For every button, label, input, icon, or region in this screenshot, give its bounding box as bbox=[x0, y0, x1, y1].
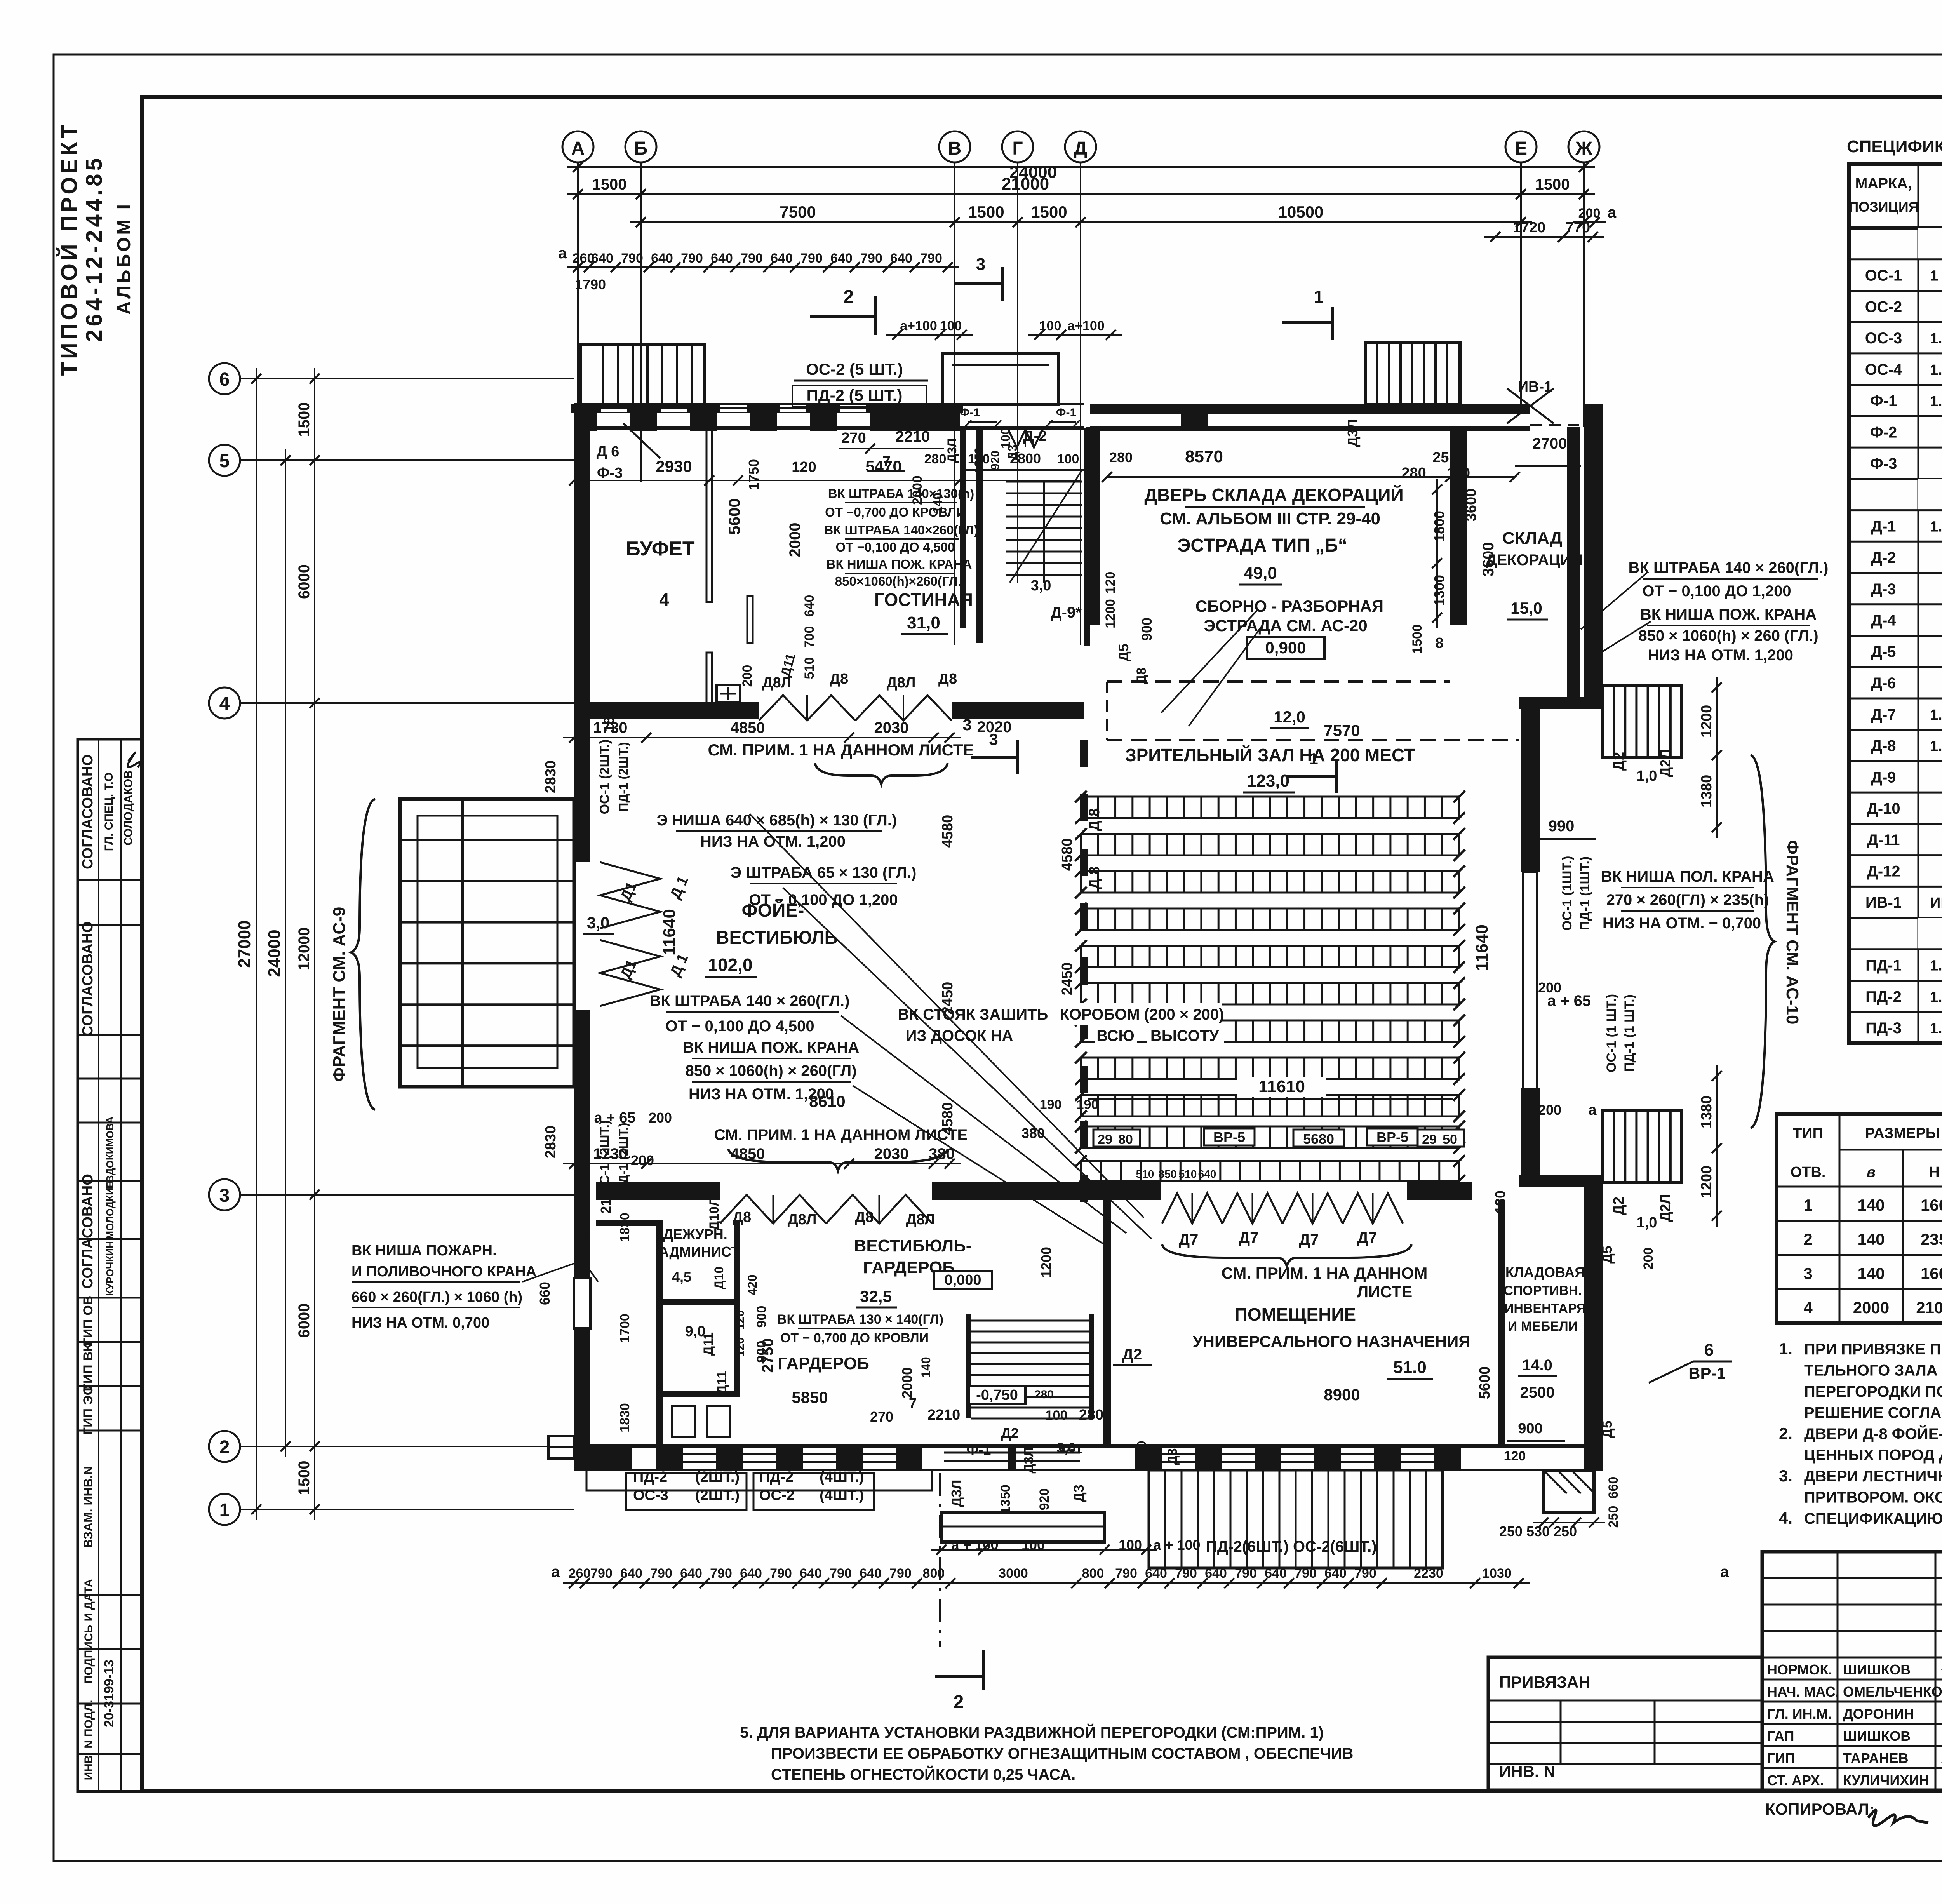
dims 1730 4850 bottom foyer bbox=[563, 1163, 961, 1164]
svg-text:ПОДПИСЬ И ДАТА: ПОДПИСЬ И ДАТА bbox=[82, 1579, 95, 1684]
svg-text:ТЕЛЬНОГО ЗАЛА В ПРОЕМЫ ПО: ТЕЛЬНОГО ЗАЛА В ПРОЕМЫ ПО ОСИ „3" И „4" … bbox=[1804, 1362, 1942, 1379]
svg-text:Д 8: Д 8 bbox=[1086, 808, 1103, 831]
admin rooms walls bbox=[656, 1220, 663, 1446]
title block outline bbox=[1762, 1552, 1942, 1790]
leader right notes bbox=[1581, 573, 1647, 629]
svg-text:20-3199-13: 20-3199-13 bbox=[102, 1660, 117, 1727]
svg-text:Д-11: Д-11 bbox=[1867, 832, 1900, 849]
svg-text:790: 790 bbox=[741, 251, 763, 266]
doors D8 axis4 bbox=[759, 695, 855, 721]
svg-text:3: 3 bbox=[1803, 1264, 1812, 1283]
svg-text:Д3: Д3 bbox=[1165, 1448, 1180, 1465]
dim v detail chain bbox=[314, 368, 315, 1520]
window F-1 left of D-2 bbox=[968, 421, 997, 423]
south wall with window piers bbox=[574, 1444, 1603, 1448]
svg-text:Д2Л: Д2Л bbox=[1657, 750, 1673, 777]
svg-text:11640: 11640 bbox=[660, 909, 679, 955]
svg-text:3000: 3000 bbox=[999, 1566, 1028, 1581]
svg-text:920: 920 bbox=[989, 451, 1002, 470]
dim 11610 bbox=[1237, 1077, 1326, 1097]
spec table rows bbox=[1918, 228, 1942, 259]
svg-text:Д8Л: Д8Л bbox=[887, 675, 916, 691]
svg-text:420: 420 bbox=[745, 1274, 759, 1295]
svg-text:ПД-1: ПД-1 bbox=[1865, 957, 1902, 974]
svg-text:1500: 1500 bbox=[296, 1461, 313, 1495]
svg-text:ПД-2 (5 ШТ.): ПД-2 (5 ШТ.) bbox=[807, 386, 903, 404]
svg-text:24000: 24000 bbox=[265, 929, 284, 977]
svg-text:140: 140 bbox=[1857, 1264, 1885, 1283]
east wall step top bbox=[1519, 697, 1603, 709]
svg-text:Д 8: Д 8 bbox=[1086, 867, 1103, 889]
central stair treads bbox=[1006, 481, 1082, 483]
svg-text:29: 29 bbox=[1422, 1132, 1437, 1147]
svg-text:Ф-1: Ф-1 bbox=[960, 406, 980, 419]
svg-text:4: 4 bbox=[1803, 1298, 1813, 1317]
svg-text:10500: 10500 bbox=[1278, 203, 1324, 221]
kladovaya west wall bbox=[1498, 1200, 1505, 1446]
svg-text:140: 140 bbox=[1857, 1230, 1885, 1248]
svg-text:2830: 2830 bbox=[543, 761, 559, 794]
svg-text:790: 790 bbox=[681, 251, 703, 266]
stair right-bottom bbox=[1603, 1111, 1682, 1183]
svg-text:ВК ШТРАБА 140 × 260(ГЛ.): ВК ШТРАБА 140 × 260(ГЛ.) bbox=[1629, 559, 1829, 576]
svg-text:Д-8: Д-8 bbox=[1871, 738, 1896, 755]
svg-text:1350: 1350 bbox=[998, 1485, 1013, 1514]
svg-text:7500: 7500 bbox=[780, 203, 816, 221]
svg-text:235: 235 bbox=[1921, 1230, 1942, 1248]
svg-text:790: 790 bbox=[1354, 1566, 1376, 1581]
svg-text:ТИП: ТИП bbox=[1793, 1125, 1823, 1142]
svg-text:a: a bbox=[551, 1563, 560, 1580]
svg-text:ГЛ. ИН.М.: ГЛ. ИН.М. bbox=[1767, 1706, 1832, 1722]
svg-text:ОС-3: ОС-3 bbox=[1865, 330, 1902, 347]
svg-text:850 × 1060(h) × 260 (ГЛ.): 850 × 1060(h) × 260 (ГЛ.) bbox=[1638, 627, 1818, 644]
svg-text:ТИПОВОЙ ПРОЕКТ: ТИПОВОЙ ПРОЕКТ bbox=[57, 122, 82, 376]
svg-text:2830: 2830 bbox=[543, 1126, 559, 1159]
svg-text:Д2: Д2 bbox=[1611, 1197, 1627, 1215]
svg-text:2150: 2150 bbox=[598, 1183, 614, 1214]
door D-2 top bbox=[1008, 430, 1042, 447]
svg-text:49,0: 49,0 bbox=[1244, 564, 1277, 583]
svg-text:ОС-2: ОС-2 bbox=[759, 1487, 795, 1504]
svg-text:a: a bbox=[558, 245, 567, 262]
svg-text:Д8: Д8 bbox=[938, 671, 957, 687]
svg-text:900: 900 bbox=[1139, 618, 1155, 641]
svg-text:И ПОЛИВОЧНОГО КРАНА: И ПОЛИВОЧНОГО КРАНА bbox=[352, 1264, 536, 1280]
svg-text:Д-9: Д-9 bbox=[1871, 769, 1896, 786]
bottom chain 2 (a+100) bbox=[931, 1549, 1157, 1551]
svg-text:3: 3 bbox=[976, 255, 985, 274]
svg-text:-0,750: -0,750 bbox=[976, 1387, 1018, 1403]
svg-text:КЛАДОВАЯ: КЛАДОВАЯ bbox=[1505, 1264, 1585, 1280]
svg-text:4: 4 bbox=[659, 590, 669, 610]
svg-text:ВР-5: ВР-5 bbox=[1213, 1129, 1245, 1145]
svg-text:ПД-3: ПД-3 bbox=[1865, 1020, 1902, 1037]
stair top-left enclosure bbox=[581, 345, 705, 406]
tambour west wall bbox=[960, 428, 966, 628]
svg-text:Д2: Д2 bbox=[1611, 752, 1627, 771]
svg-text:1750: 1750 bbox=[746, 459, 762, 490]
svg-text:ТАРАНЕВ: ТАРАНЕВ bbox=[1843, 1750, 1909, 1766]
svg-text:11610: 11610 bbox=[1258, 1077, 1305, 1096]
svg-text:ВК НИША ПОЖ. КРАНА: ВК НИША ПОЖ. КРАНА bbox=[1640, 606, 1817, 623]
svg-text:120: 120 bbox=[734, 1337, 747, 1357]
svg-text:ФРАГМЕНТ СМ. АС-10: ФРАГМЕНТ СМ. АС-10 bbox=[1783, 840, 1802, 1025]
svg-text:990: 990 bbox=[1549, 818, 1575, 835]
svg-text:660 × 260(ГЛ.) × 1060 (h): 660 × 260(ГЛ.) × 1060 (h) bbox=[352, 1289, 522, 1305]
svg-text:a: a bbox=[1608, 204, 1617, 221]
svg-text:2500: 2500 bbox=[1520, 1384, 1555, 1401]
svg-text:ОС-4: ОС-4 bbox=[1865, 361, 1902, 378]
svg-text:3,0: 3,0 bbox=[1031, 578, 1051, 594]
top porch at G axis bbox=[942, 354, 1058, 404]
svg-text:280: 280 bbox=[1401, 465, 1426, 481]
dim chains right v bbox=[1716, 677, 1718, 838]
svg-text:8610: 8610 bbox=[809, 1092, 845, 1110]
svg-text:1700: 1700 bbox=[618, 1314, 632, 1343]
spec table grid bbox=[1849, 164, 1942, 1043]
wall hall south right seg bbox=[1407, 1182, 1472, 1200]
svg-text:ВК ШТРАБА 140×260(ГЛ): ВК ШТРАБА 140×260(ГЛ) bbox=[824, 523, 978, 537]
svg-text:5: 5 bbox=[219, 451, 230, 472]
svg-text:280: 280 bbox=[924, 452, 947, 466]
svg-text:ГАП: ГАП bbox=[1767, 1728, 1794, 1744]
svg-text:(2ШТ.): (2ШТ.) bbox=[695, 1469, 740, 1485]
title block left part bbox=[1488, 1700, 1762, 1702]
svg-text:Д8Л: Д8Л bbox=[906, 1211, 935, 1228]
dim 21000 bbox=[630, 193, 1532, 195]
fragment AC-10 brace bbox=[1751, 755, 1775, 1128]
svg-text:1350: 1350 bbox=[973, 447, 985, 473]
svg-text:ВК НИША ПОЖ. КРАНА: ВК НИША ПОЖ. КРАНА bbox=[683, 1039, 859, 1056]
svg-text:ЦЕННЫХ ПОРОД ДРЕВЕСИНЫ.: ЦЕННЫХ ПОРОД ДРЕВЕСИНЫ. bbox=[1804, 1447, 1942, 1464]
svg-text:ОС-2 (5 ШТ.): ОС-2 (5 ШТ.) bbox=[806, 360, 903, 378]
svg-text:ПОМЕЩЕНИЕ: ПОМЕЩЕНИЕ bbox=[1235, 1304, 1356, 1324]
svg-text:2000: 2000 bbox=[899, 1367, 915, 1398]
svg-text:в: в bbox=[1867, 1164, 1876, 1180]
svg-text:Е: Е bbox=[1515, 138, 1527, 159]
west wall niche bbox=[574, 1278, 590, 1328]
svg-text:ОТ − 0,100 ДО 1,200: ОТ − 0,100 ДО 1,200 bbox=[1642, 583, 1791, 600]
label 2700 bbox=[1515, 465, 1581, 467]
north wall stage part bbox=[1090, 404, 1530, 414]
svg-text:12000: 12000 bbox=[296, 927, 313, 970]
svg-text:4580: 4580 bbox=[940, 1102, 956, 1135]
svg-text:2030: 2030 bbox=[874, 719, 909, 736]
wall axis4 with D8 doors bbox=[590, 702, 759, 719]
svg-text:4580: 4580 bbox=[1059, 838, 1075, 871]
svg-text:ВР-1: ВР-1 bbox=[1688, 1364, 1726, 1382]
svg-text:АДМИНИСТ: АДМИНИСТ bbox=[659, 1244, 740, 1260]
svg-text:1: 1 bbox=[1314, 287, 1324, 307]
stage west wall bbox=[1086, 427, 1100, 625]
leader diagonals foyer bbox=[750, 814, 1144, 1218]
svg-text:920: 920 bbox=[1150, 1444, 1164, 1465]
svg-text:640: 640 bbox=[651, 251, 673, 266]
svg-text:51.0: 51.0 bbox=[1393, 1358, 1427, 1377]
stair down label -0750 bbox=[969, 1386, 1025, 1404]
svg-text:Ф-1: Ф-1 bbox=[1056, 406, 1076, 419]
svg-text:СКЛАД: СКЛАД bbox=[1502, 529, 1562, 548]
svg-text:11640: 11640 bbox=[1472, 924, 1491, 971]
terrace bottom hatched bbox=[1149, 1470, 1443, 1568]
west wall upper bbox=[574, 428, 590, 704]
svg-text:1500: 1500 bbox=[968, 203, 1004, 221]
wall right of gostinaya bbox=[976, 430, 983, 643]
svg-text:6: 6 bbox=[219, 369, 230, 390]
svg-text:100: 100 bbox=[1447, 465, 1470, 481]
svg-text:Д-6: Д-6 bbox=[1871, 675, 1896, 692]
stair right-top bbox=[1603, 686, 1682, 757]
svg-text:1200: 1200 bbox=[1698, 705, 1715, 738]
svg-text:850 × 1060(h) × 260(ГЛ): 850 × 1060(h) × 260(ГЛ) bbox=[685, 1062, 856, 1079]
svg-text:Д: Д bbox=[1074, 138, 1087, 159]
svg-text:ПД-2: ПД-2 bbox=[633, 1469, 667, 1485]
svg-text:СМ. ПРИМ. 1 НА ДАННОМ ЛИСТЕ: СМ. ПРИМ. 1 НА ДАННОМ ЛИСТЕ bbox=[708, 741, 974, 759]
stamp sig1 bbox=[128, 752, 141, 767]
seat row labels VR-5 bbox=[1093, 1130, 1140, 1147]
svg-text:640: 640 bbox=[1198, 1168, 1216, 1180]
svg-text:ЭСТРАДА ТИП „Б“: ЭСТРАДА ТИП „Б“ bbox=[1177, 535, 1347, 556]
svg-text:СПОРТИВН.: СПОРТИВН. bbox=[1503, 1283, 1582, 1298]
dim 1500 left top bbox=[567, 193, 652, 195]
svg-text:1.136. 5-19: 1.136. 5-19 bbox=[1930, 519, 1942, 535]
sect mark 1 top bbox=[1282, 321, 1332, 324]
svg-text:Д8: Д8 bbox=[1134, 667, 1149, 684]
svg-text:31,0: 31,0 bbox=[907, 613, 940, 632]
svg-text:ПРИ ПРИВЯЗКЕ ПРОЕКТА ДЛЯ О: ПРИ ПРИВЯЗКЕ ПРОЕКТА ДЛЯ ОБЕСПЕЧЕНИЯ ПОЛ… bbox=[1804, 1340, 1942, 1358]
svg-text:ГИП: ГИП bbox=[1767, 1750, 1795, 1766]
window OS-3 bottom left bbox=[548, 1436, 574, 1458]
barrier row bbox=[1081, 1161, 1459, 1181]
svg-text:1500: 1500 bbox=[1410, 624, 1425, 654]
porch left steps bbox=[400, 799, 574, 1087]
svg-text:ПРИВЯЗАН: ПРИВЯЗАН bbox=[1499, 1673, 1590, 1691]
svg-text:СОГЛАСОВАНО: СОГЛАСОВАНО bbox=[80, 921, 96, 1036]
svg-text:ИНВ. N ПОДЛ.: ИНВ. N ПОДЛ. bbox=[82, 1700, 95, 1780]
svg-text:1500: 1500 bbox=[1535, 176, 1570, 193]
svg-text:5. ДЛЯ ВАРИАНТА УСТАНОВКИ: 5. ДЛЯ ВАРИАНТА УСТАНОВКИ РАЗДВИЖНОЙ ПЕР… bbox=[740, 1723, 1324, 1741]
svg-text:Д5: Д5 bbox=[1115, 644, 1131, 661]
svg-text:21000: 21000 bbox=[1002, 174, 1049, 193]
svg-text:Д7: Д7 bbox=[1239, 1229, 1259, 1246]
svg-text:790: 790 bbox=[590, 1566, 613, 1581]
svg-text:5850: 5850 bbox=[792, 1388, 828, 1406]
svg-text:2.: 2. bbox=[1779, 1424, 1792, 1443]
svg-text:2930: 2930 bbox=[656, 457, 692, 475]
svg-text:1.236-5 ВЫП. 1: 1.236-5 ВЫП. 1 bbox=[1930, 707, 1942, 723]
svg-text:(4ШТ.): (4ШТ.) bbox=[820, 1469, 864, 1485]
svg-text:270 × 260(ГЛ) × 235(h): 270 × 260(ГЛ) × 235(h) bbox=[1606, 891, 1769, 908]
svg-text:ИНВ. N: ИНВ. N bbox=[1499, 1762, 1556, 1780]
svg-text:ВК ШТРАБА 130 × 140(ГЛ): ВК ШТРАБА 130 × 140(ГЛ) bbox=[777, 1312, 943, 1327]
svg-text:ОС-1 (2ШТ.): ОС-1 (2ШТ.) bbox=[597, 740, 612, 815]
dim 7500 1500 1500 10500 bbox=[630, 221, 1532, 223]
svg-text:СТ. АРХ.: СТ. АРХ. bbox=[1767, 1772, 1824, 1788]
svg-text:0,000: 0,000 bbox=[944, 1272, 981, 1288]
svg-text:Д-9*: Д-9* bbox=[1051, 604, 1082, 621]
universal west wall bbox=[1103, 1200, 1111, 1446]
svg-text:ОТ − 0,100 ДО 4,500: ОТ − 0,100 ДО 4,500 bbox=[665, 1018, 814, 1035]
svg-text:280: 280 bbox=[1109, 449, 1133, 465]
svg-text:8900: 8900 bbox=[1324, 1385, 1360, 1404]
svg-text:ШИШКОВ: ШИШКОВ bbox=[1843, 1662, 1911, 1678]
sect mark 2 top bbox=[810, 315, 875, 318]
svg-text:0,900: 0,900 bbox=[1265, 639, 1306, 657]
svg-text:РАЗМЕРЫ: РАЗМЕРЫ bbox=[1865, 1125, 1940, 1142]
svg-text:Д5: Д5 bbox=[1599, 1246, 1615, 1264]
svg-text:1720: 1720 bbox=[1513, 219, 1546, 236]
tambour east wall bbox=[1084, 428, 1090, 646]
svg-text:200: 200 bbox=[1578, 206, 1601, 221]
stamp col lines bbox=[98, 739, 99, 1791]
east wall sklad block bbox=[1584, 404, 1603, 703]
svg-text:ПД-1 (1 ШТ.): ПД-1 (1 ШТ.) bbox=[1622, 994, 1637, 1072]
svg-text:2000: 2000 bbox=[1853, 1298, 1889, 1317]
svg-text:ГОСТИНАЯ: ГОСТИНАЯ bbox=[874, 590, 973, 610]
svg-text:СПЕЦИФИКАЦИЯ ЗАПОЛНЕНИЯ ОКОННЫ: СПЕЦИФИКАЦИЯ ЗАПОЛНЕНИЯ ОКОННЫХ И ДВЕРНЫ… bbox=[1847, 137, 1942, 156]
svg-text:Ф-1: Ф-1 bbox=[967, 1442, 991, 1458]
svg-text:640: 640 bbox=[1324, 1566, 1347, 1581]
svg-text:250: 250 bbox=[1432, 449, 1457, 466]
fragment AC-9 brace bbox=[351, 799, 375, 1110]
svg-text:ИНВЕНТАРЯ: ИНВЕНТАРЯ bbox=[1504, 1301, 1586, 1316]
svg-text:Ж: Ж bbox=[1575, 138, 1592, 159]
svg-text:2700: 2700 bbox=[1533, 435, 1567, 452]
svg-text:ИВ-1: ИВ-1 bbox=[1865, 894, 1902, 911]
svg-text:200: 200 bbox=[631, 1152, 654, 1168]
svg-text:510: 510 bbox=[802, 657, 817, 679]
svg-text:1030: 1030 bbox=[1482, 1566, 1512, 1581]
svg-text:ВК НИША ПОЖ. КРАНА: ВК НИША ПОЖ. КРАНА bbox=[827, 557, 972, 571]
svg-text:80: 80 bbox=[1118, 1132, 1133, 1147]
svg-text:2800: 2800 bbox=[1079, 1407, 1112, 1423]
svg-text:ОС-1 (1ШТ.): ОС-1 (1ШТ.) bbox=[1560, 856, 1575, 931]
north wall west part with window piers bbox=[574, 426, 1084, 430]
sect mark 1 low bbox=[1286, 775, 1336, 778]
svg-text:1830: 1830 bbox=[618, 1213, 632, 1242]
svg-text:32,5: 32,5 bbox=[860, 1287, 892, 1305]
svg-text:790: 790 bbox=[621, 251, 643, 266]
svg-text:790: 790 bbox=[1115, 1566, 1137, 1581]
svg-text:640: 640 bbox=[771, 251, 793, 266]
svg-text:100: 100 bbox=[1046, 1408, 1068, 1423]
svg-text:ВЕСТИБЮЛЬ-: ВЕСТИБЮЛЬ- bbox=[854, 1236, 972, 1255]
svg-text:Д3Л: Д3Л bbox=[948, 1480, 964, 1507]
admin fixtures bbox=[672, 1406, 695, 1437]
svg-text:120: 120 bbox=[1103, 572, 1118, 594]
east wall auditorium bbox=[1521, 709, 1540, 872]
svg-text:БУФЕТ: БУФЕТ bbox=[626, 538, 695, 560]
stair top-left treads bbox=[602, 346, 604, 405]
svg-text:СБОРНО - РАЗБОРНАЯ: СБОРНО - РАЗБОРНАЯ bbox=[1195, 597, 1383, 615]
central stair treads bbox=[971, 1320, 1089, 1322]
svg-text:Д3: Д3 bbox=[1006, 445, 1020, 461]
svg-text:14.0: 14.0 bbox=[1522, 1357, 1552, 1374]
svg-text:800: 800 bbox=[923, 1566, 945, 1581]
svg-text:Д7: Д7 bbox=[1179, 1231, 1199, 1248]
svg-text:790: 790 bbox=[1295, 1566, 1317, 1581]
svg-text:3600: 3600 bbox=[1480, 542, 1497, 577]
svg-text:640: 640 bbox=[1265, 1566, 1287, 1581]
doors D8 south bbox=[720, 1195, 826, 1224]
svg-text:Э ШТРАБА 65 × 130 (ГЛ.): Э ШТРАБА 65 × 130 (ГЛ.) bbox=[731, 864, 917, 881]
svg-text:ДЕКОРАЦИИ: ДЕКОРАЦИИ bbox=[1486, 552, 1582, 569]
hall west columns bbox=[1080, 740, 1088, 767]
svg-text:800: 800 bbox=[1082, 1566, 1104, 1581]
svg-text:1830: 1830 bbox=[618, 1403, 632, 1432]
svg-text:Д-12: Д-12 bbox=[1867, 863, 1900, 880]
svg-text:2450: 2450 bbox=[940, 982, 956, 1015]
stage east wall bbox=[1450, 427, 1467, 625]
svg-text:СТЕПЕНЬ ОГНЕСТОЙКОСТИ 0,25 Ч: СТЕПЕНЬ ОГНЕСТОЙКОСТИ 0,25 ЧАСА. bbox=[771, 1765, 1075, 1783]
svg-text:640: 640 bbox=[680, 1566, 702, 1581]
dim a100 top center bbox=[886, 334, 973, 336]
svg-text:ПД-1 (1ШТ.): ПД-1 (1ШТ.) bbox=[1578, 856, 1592, 930]
svg-text:Д10Л: Д10Л bbox=[707, 1197, 722, 1230]
svg-text:Д-1: Д-1 bbox=[1871, 518, 1896, 535]
terrace bottom left part bbox=[586, 1470, 932, 1490]
svg-text:1: 1 bbox=[219, 1500, 230, 1521]
svg-text:Г: Г bbox=[1012, 138, 1023, 159]
svg-text:140: 140 bbox=[1857, 1196, 1885, 1214]
svg-text:МАРКА,: МАРКА, bbox=[1855, 176, 1912, 192]
wall buffet/gostinaya bbox=[706, 430, 712, 602]
svg-text:СОЛОДАКОВ: СОЛОДАКОВ bbox=[122, 770, 135, 846]
svg-text:120: 120 bbox=[734, 1310, 747, 1330]
porch bottom right bbox=[1544, 1470, 1594, 1513]
svg-text:2: 2 bbox=[844, 287, 854, 307]
svg-text:a + 100: a + 100 bbox=[1153, 1537, 1200, 1553]
wall foyer south bbox=[596, 1182, 720, 1200]
svg-text:1500: 1500 bbox=[592, 176, 627, 193]
svg-text:Д3: Д3 bbox=[1071, 1485, 1087, 1502]
svg-text:140: 140 bbox=[931, 493, 945, 513]
svg-text:НАЧ. МАС.: НАЧ. МАС. bbox=[1767, 1684, 1839, 1700]
svg-text:ПОЗИЦИЯ: ПОЗИЦИЯ bbox=[1848, 199, 1918, 215]
svg-text:СОГЛАСОВАНО: СОГЛАСОВАНО bbox=[80, 1174, 96, 1289]
svg-text:НИЗ НА ОТМ. − 0,700: НИЗ НА ОТМ. − 0,700 bbox=[1603, 915, 1761, 932]
svg-text:2210: 2210 bbox=[896, 428, 930, 445]
svg-text:1200: 1200 bbox=[1698, 1166, 1715, 1199]
window F-1 right of D-2 bbox=[1049, 421, 1076, 423]
svg-text:ЛИСТЕ: ЛИСТЕ bbox=[1357, 1283, 1413, 1301]
svg-text:3: 3 bbox=[962, 715, 971, 734]
dim v 24000 bbox=[285, 449, 286, 1457]
svg-text:264-12-244.85: 264-12-244.85 bbox=[82, 155, 107, 342]
svg-text:КУРОЧКИН: КУРОЧКИН bbox=[104, 1241, 116, 1296]
east wall window bay OS-1 bbox=[1523, 872, 1537, 1089]
svg-text:(4ШТ.): (4ШТ.) bbox=[820, 1487, 864, 1504]
svg-text:2000: 2000 bbox=[910, 475, 925, 505]
svg-text:1380: 1380 bbox=[1698, 775, 1715, 808]
svg-text:790: 790 bbox=[920, 251, 942, 266]
svg-text:1500: 1500 bbox=[296, 402, 313, 437]
svg-text:Д2: Д2 bbox=[1001, 1425, 1019, 1441]
svg-text:Д11: Д11 bbox=[715, 1371, 729, 1394]
svg-text:200: 200 bbox=[1538, 1102, 1561, 1118]
svg-text:a: a bbox=[1720, 1563, 1729, 1580]
porch bottom center bbox=[941, 1513, 1105, 1542]
svg-text:1.236-6 ВЫП. 1 (Ч. 1,2): 1.236-6 ВЫП. 1 (Ч. 1,2) bbox=[1930, 362, 1942, 378]
svg-text:790: 790 bbox=[710, 1566, 732, 1581]
svg-text:8570: 8570 bbox=[1185, 447, 1223, 466]
svg-text:ЕВДОКИМОВА: ЕВДОКИМОВА bbox=[104, 1116, 116, 1189]
svg-text:ОС-1: ОС-1 bbox=[1865, 267, 1902, 284]
svg-text:ГИП ВК: ГИП ВК bbox=[81, 1343, 96, 1391]
svg-text:ПД-1 (2ШТ.): ПД-1 (2ШТ.) bbox=[616, 742, 630, 811]
svg-text:3,0: 3,0 bbox=[587, 914, 609, 932]
